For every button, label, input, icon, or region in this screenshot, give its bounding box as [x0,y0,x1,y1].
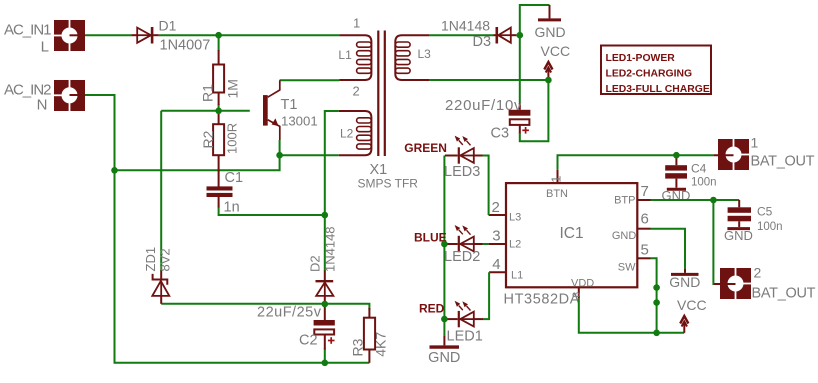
ground GND LED rail [428,335,460,366]
svg-text:8: 8 [572,292,583,298]
wire C3 bottom to VCC node [520,80,549,141]
wire ZD1 bottom row to R3 top [161,304,369,310]
svg-text:AC_IN1: AC_IN1 [4,22,51,39]
diode D2 1N4148 [308,226,338,304]
svg-text:1: 1 [353,15,360,30]
capacitor C3 220uF/10v [445,97,530,142]
junction node BTP/C5/BAT_OUT2 [710,197,717,204]
svg-text:C3: C3 [491,126,510,142]
svg-text:4: 4 [492,256,500,273]
transformer X1 SMPS TFR winding L1 [338,15,371,98]
junction node D2/C2/R3 [322,301,329,308]
svg-text:IC1: IC1 [560,225,584,242]
junction node R1/R2 divider [215,108,222,115]
capacitor C4 100n [665,155,716,188]
svg-text:1N4148: 1N4148 [323,226,338,272]
wire R1 bottom to node [218,104,220,111]
wire D2 node down to D2 anode [324,215,326,271]
pin 3 L2 [489,228,522,251]
svg-text:D3: D3 [473,34,492,50]
ground GND top [534,5,565,40]
ground GND C5 [724,228,753,243]
junction node SW line upper [653,284,660,291]
svg-text:1N4148: 1N4148 [441,17,490,33]
wire AC_IN1 L to D1 anode [85,34,132,36]
pin 2 L3 [489,199,522,223]
svg-text:1M: 1M [225,79,241,98]
power VCC top [541,43,571,80]
svg-text:R3: R3 [350,338,366,356]
svg-text:L: L [41,39,49,56]
wire LED1 to pin 4 [483,272,489,319]
svg-text:ZD1: ZD1 [143,247,158,272]
svg-text:BTN: BTN [546,188,568,200]
wire neutral row to emitter junction [115,155,280,170]
svg-text:L3: L3 [418,47,432,61]
svg-text:100n: 100n [691,177,717,189]
capacitor C5 100n [728,200,783,233]
svg-text:L2: L2 [340,127,354,141]
svg-text:220uF/10v: 220uF/10v [445,97,522,114]
LED3 GREEN [404,136,482,180]
diode D3 1N4148 [441,17,516,50]
connector AC_IN1 [4,20,85,56]
wire R1-R2 node down to ZD1 [160,111,162,271]
wire T1 emitter down to junction [279,140,281,155]
ground GND C4 [662,188,691,203]
wire pin 5 SW down [651,258,657,333]
svg-text:N: N [37,96,48,113]
wire LED rail down to ground [443,156,445,336]
power VCC bottom [677,297,707,333]
junction node emitter/L2 [276,152,283,159]
svg-text:2: 2 [754,265,762,281]
junction node SW/VDD/VCC [653,330,660,337]
junction node D1/R1/L1 [215,32,222,39]
wire L2 top to D2 column [325,111,339,215]
pin 4 L1 [489,256,523,281]
wire pin 7 to BAT node [651,199,740,201]
svg-text:6: 6 [641,211,649,228]
svg-text:C4: C4 [691,162,707,176]
diode D1 1N4007 [131,18,210,54]
svg-text:L3: L3 [509,211,521,223]
transformer X1 winding L2 [339,111,372,155]
svg-text:5: 5 [641,242,649,259]
svg-text:100n: 100n [757,221,783,233]
junction node C1/D2 [322,212,329,219]
svg-text:D2: D2 [308,255,323,272]
pin 1 BTN [546,170,568,200]
junction node LED1 rail [441,316,448,323]
svg-text:L1: L1 [338,48,352,62]
svg-text:SW: SW [618,262,636,274]
connector AC_IN2 [4,80,85,113]
op-amp IC1 HT3582DA body [504,183,638,307]
svg-text:2: 2 [353,84,360,99]
wire node to R1 top [218,35,220,51]
svg-text:C2: C2 [299,332,318,348]
note box LED functions [601,46,711,96]
LED2 BLUE [414,225,483,265]
wire C1 bottom to D2 node [219,207,325,216]
svg-text:LED3-FULL CHARGE: LED3-FULL CHARGE [606,84,710,95]
svg-text:LED2-CHARGING: LED2-CHARGING [606,69,693,80]
pin 5 SW [618,242,651,274]
pin 6 GND [612,211,651,243]
svg-text:RED: RED [419,302,445,316]
wire emitter junction to L2 bottom [280,154,339,156]
svg-text:VDD: VDD [571,277,594,289]
capacitor C2 22uF/25v [257,304,335,350]
wire L3 bottom to VCC node [429,79,548,81]
junction node D3 cathode [517,32,524,39]
svg-text:T1: T1 [281,97,298,113]
ground GND pin6 [669,269,700,290]
svg-text:GND: GND [612,230,637,242]
junction node BTN/C4/BAT_OUT1 [673,152,680,159]
svg-text:GND: GND [428,350,460,366]
svg-text:7: 7 [641,183,649,200]
connector BAT_OUT 2 [714,265,816,302]
resistor R2 100R [200,111,240,187]
wire L3 top to D3 [429,34,494,36]
svg-text:BTP: BTP [614,195,635,207]
wire T1 collector to L1 pin2 [280,79,340,81]
svg-text:R1: R1 [200,84,216,102]
transformer X1 core [358,31,419,191]
svg-text:L1: L1 [511,269,523,281]
transistor T1 13001 [263,80,318,140]
svg-text:2: 2 [492,199,500,216]
wire AC_IN2 N down left rail and bottom rail to R3 [85,95,370,363]
resistor R3 4K7 [350,308,389,363]
svg-text:BAT_OUT: BAT_OUT [752,286,816,302]
svg-text:8V2: 8V2 [158,248,173,271]
svg-text:X1: X1 [370,162,388,178]
svg-text:13001: 13001 [281,114,318,129]
svg-text:VCC: VCC [677,297,707,313]
wire pin 1 BTN riser and net to BAT node [558,155,715,170]
wire node down to C3 [519,35,521,104]
junction node AC_IN2 rail [111,167,118,174]
svg-text:1: 1 [549,176,564,183]
junction node LED2 rail [441,241,448,248]
wire pin 8 VDD to VCC [579,299,685,333]
pin 8 VDD [571,277,594,298]
transformer X1 winding L3 [395,35,431,80]
svg-text:D1: D1 [159,18,177,34]
capacitor C1 1n [207,170,244,216]
LED1 RED [419,301,483,345]
svg-text:3: 3 [492,228,500,245]
svg-text:BAT_OUT: BAT_OUT [751,154,815,170]
svg-text:GND: GND [669,274,700,290]
svg-text:C1: C1 [225,170,244,186]
svg-text:HT3582DA: HT3582DA [504,292,581,308]
wire BAT node down to BAT_OUT 2 [713,200,719,284]
wire D3 cathode node up to GND [516,5,549,35]
wire pin 6 to ground [651,229,686,269]
svg-text:VCC: VCC [541,43,571,59]
wire R1-R2 node to T1 base [161,110,250,112]
svg-text:R2: R2 [200,130,216,148]
wire LED3 to pin 2 [483,156,489,216]
connector BAT_OUT 1 [714,135,815,171]
resistor R1 1M [200,50,241,105]
wire C2 bottom to rail [324,349,326,363]
svg-text:LED1-POWER: LED1-POWER [606,53,676,64]
pin 7 BTP [614,183,650,207]
svg-text:L2: L2 [509,239,521,251]
junction node C2 bottom rail [322,360,329,367]
svg-text:LED1: LED1 [447,329,483,345]
svg-text:SMPS TFR: SMPS TFR [358,177,419,191]
svg-text:1N4007: 1N4007 [160,38,211,54]
svg-text:LED2: LED2 [444,249,480,265]
svg-text:C5: C5 [757,205,773,219]
wire D1 cathode to node and L1 pin1 [159,34,340,36]
wire LED2 to pin 3 [483,243,489,245]
svg-text:1n: 1n [224,200,240,216]
svg-text:GREEN: GREEN [404,141,447,155]
svg-text:GND: GND [534,24,565,40]
svg-text:GND: GND [724,228,753,243]
svg-text:4K7: 4K7 [373,332,389,357]
svg-text:100R: 100R [225,123,240,154]
junction node VCC secondary [545,77,552,84]
svg-text:22uF/25v: 22uF/25v [257,304,322,320]
svg-text:LED3: LED3 [444,164,480,180]
junction node SW line lower [653,299,660,306]
svg-text:1: 1 [751,135,759,151]
zener diode ZD1 8V2 [143,247,173,304]
